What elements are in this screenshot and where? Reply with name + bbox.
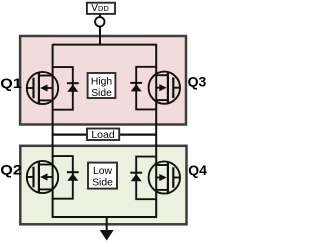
svg-text:Q2: Q2 xyxy=(0,162,22,178)
Low Side box xyxy=(88,163,117,189)
transistor Q4 xyxy=(149,161,180,193)
wire load right (node B) xyxy=(119,134,157,136)
diode loop Q2 xyxy=(53,156,73,199)
svg-text:Low: Low xyxy=(93,166,112,177)
VDD box xyxy=(87,3,115,14)
ground symbol xyxy=(100,230,114,241)
svg-text:High: High xyxy=(91,76,112,87)
high-side block (pink box) xyxy=(20,36,186,125)
svg-text:Q4: Q4 xyxy=(188,162,207,178)
body diode of Q4 xyxy=(130,172,142,174)
diode loop Q3 xyxy=(136,67,156,110)
wire load left (node A) xyxy=(53,134,88,136)
svg-text:VDD: VDD xyxy=(91,3,109,14)
transistor Q1 xyxy=(27,72,58,104)
High Side box xyxy=(88,73,116,98)
wire ground tap xyxy=(106,217,108,231)
svg-text:Side: Side xyxy=(92,178,113,189)
body diode of Q2 xyxy=(67,171,79,173)
body diode of Q3 xyxy=(130,82,142,84)
svg-text:Q1: Q1 xyxy=(0,75,22,91)
transistor Q2 xyxy=(27,161,58,193)
svg-text:Q3: Q3 xyxy=(188,74,207,90)
svg-text:Load: Load xyxy=(91,129,115,141)
wire right vertical rail (Q3-Q4) xyxy=(155,44,157,218)
transistor Q3 xyxy=(149,72,180,104)
low-side block (green box) xyxy=(20,146,186,225)
diode loop Q1 xyxy=(53,67,73,110)
Load box xyxy=(87,129,119,141)
diode loop Q4 xyxy=(136,157,156,200)
wire left vertical rail (Q1-Q2) xyxy=(52,44,54,218)
wire inner top rail xyxy=(53,44,157,46)
wire inner bottom rail xyxy=(53,216,157,218)
svg-text:Side: Side xyxy=(91,88,112,99)
wire VDD feed xyxy=(99,14,101,45)
body diode of Q1 xyxy=(67,82,79,84)
node VDD terminal xyxy=(95,17,104,26)
